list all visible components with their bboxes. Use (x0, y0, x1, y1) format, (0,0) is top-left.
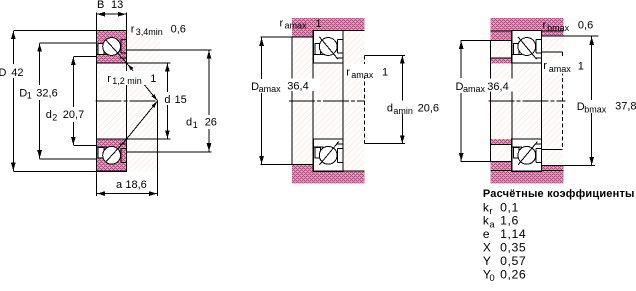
svg-text:d: d (164, 94, 170, 106)
svg-text:amax: amax (259, 84, 282, 94)
svg-text:Расчётные коэффициенты: Расчётные коэффициенты (483, 188, 635, 200)
svg-text:1,2 min: 1,2 min (112, 76, 142, 86)
svg-text:1: 1 (193, 120, 198, 130)
svg-text:Y: Y (483, 254, 491, 268)
svg-text:0: 0 (489, 273, 494, 284)
svg-text:1: 1 (382, 66, 388, 78)
svg-text:0,26: 0,26 (500, 267, 526, 281)
svg-text:42: 42 (11, 67, 23, 79)
svg-text:D: D (0, 67, 7, 79)
svg-text:1: 1 (578, 60, 584, 72)
svg-text:36,4: 36,4 (287, 81, 308, 93)
svg-text:e: e (483, 227, 490, 241)
svg-text:r: r (346, 66, 350, 78)
svg-text:1,6: 1,6 (500, 214, 519, 228)
svg-text:0,35: 0,35 (500, 241, 526, 255)
svg-text:r: r (543, 19, 547, 31)
svg-text:bmax: bmax (547, 23, 570, 33)
svg-text:bmax: bmax (584, 104, 607, 114)
svg-text:3,4min: 3,4min (136, 27, 163, 37)
svg-text:r: r (131, 24, 135, 36)
svg-text:32,6: 32,6 (36, 87, 57, 99)
svg-text:1: 1 (150, 73, 156, 85)
svg-text:X: X (483, 241, 491, 255)
svg-text:20,7: 20,7 (63, 109, 84, 121)
svg-text:amin: amin (393, 106, 413, 116)
svg-text:r: r (280, 17, 284, 29)
svg-text:26: 26 (205, 116, 217, 128)
svg-text:0,6: 0,6 (578, 19, 593, 31)
svg-text:0,1: 0,1 (500, 200, 519, 214)
svg-text:amax: amax (549, 64, 572, 74)
svg-text:amax: amax (285, 21, 308, 31)
svg-text:1: 1 (316, 18, 322, 30)
svg-text:r: r (543, 60, 547, 72)
svg-text:a: a (116, 179, 123, 191)
svg-text:d: d (46, 109, 52, 121)
svg-text:37,8: 37,8 (615, 101, 636, 113)
svg-text:2: 2 (52, 112, 57, 122)
svg-text:36,4: 36,4 (487, 81, 508, 93)
svg-text:18,6: 18,6 (125, 179, 146, 191)
svg-text:1: 1 (27, 91, 32, 101)
svg-text:1,14: 1,14 (500, 227, 526, 241)
svg-text:d: d (387, 102, 393, 114)
svg-text:a: a (489, 219, 495, 230)
svg-text:r: r (107, 73, 111, 85)
svg-text:15: 15 (175, 94, 187, 106)
svg-text:0,57: 0,57 (500, 254, 526, 268)
svg-text:amax: amax (351, 70, 374, 80)
svg-text:d: d (186, 116, 192, 128)
svg-text:0,6: 0,6 (171, 24, 186, 36)
svg-text:r: r (489, 206, 492, 217)
svg-text:B: B (97, 0, 104, 11)
svg-text:amax: amax (463, 84, 486, 94)
svg-text:20,6: 20,6 (418, 102, 439, 114)
svg-text:13: 13 (111, 0, 123, 11)
